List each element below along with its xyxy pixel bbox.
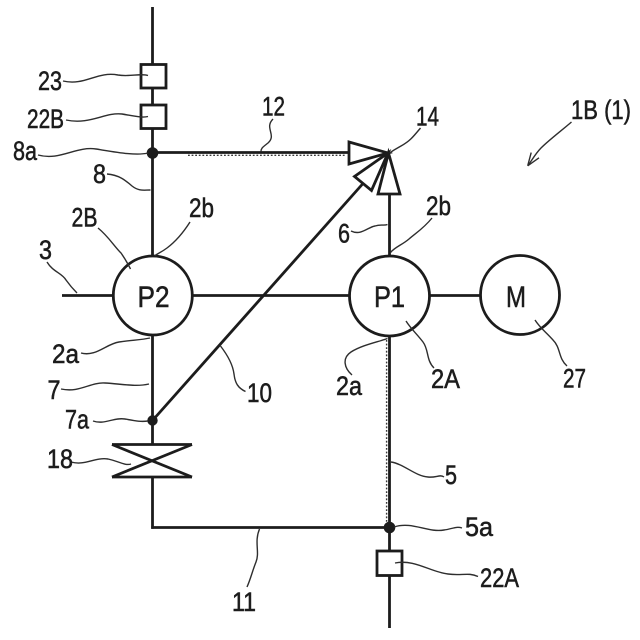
node 5a (junction dot) <box>385 523 394 532</box>
leader line for label 7a <box>93 419 148 422</box>
svg-text:7: 7 <box>48 375 61 405</box>
wire below valve 18 <box>151 477 154 529</box>
svg-text:22B: 22B <box>27 104 64 134</box>
wire 5: pump P1 down to node 5a <box>388 336 391 528</box>
leader line for label 12 <box>261 119 273 152</box>
leader line for label 7 <box>61 383 149 390</box>
pump P1 (circle) <box>350 256 430 336</box>
leader line for label 2a (right) <box>345 339 387 376</box>
svg-text:18: 18 <box>47 444 73 474</box>
leader line for label 8a <box>38 149 148 157</box>
wire 12 (pilot line to point 14, solid part) <box>153 151 349 154</box>
arrowhead of wire 12 at point 14 <box>349 142 388 164</box>
leader line for label 27 <box>535 320 567 366</box>
svg-text:5a: 5a <box>465 512 494 542</box>
svg-text:2a: 2a <box>52 339 80 369</box>
leader line for label 5a <box>394 525 462 530</box>
pump P2 (circle) <box>113 256 192 335</box>
svg-text:11: 11 <box>232 587 256 617</box>
wire 5 dotted companion line <box>386 340 388 525</box>
wire below valve 22A to tank <box>388 576 391 629</box>
valve 22A (square symbol) <box>377 551 402 576</box>
leader line for label 10 <box>221 346 246 392</box>
leader line for label 22A <box>395 562 478 576</box>
svg-text:12: 12 <box>262 92 285 122</box>
leader line for label 3 <box>47 262 77 293</box>
valve 23 (square symbol) <box>141 65 166 89</box>
leader line for label 22B <box>66 114 148 121</box>
leader line for label 2b (right) <box>391 218 433 253</box>
arrowhead of wire 6 at point 14 <box>378 153 400 194</box>
svg-text:P2: P2 <box>138 281 170 314</box>
leader line for label 23 <box>63 74 148 82</box>
wire from node 5a to valve 22A <box>388 528 391 552</box>
wire 12 dotted companion line <box>188 154 346 156</box>
svg-text:10: 10 <box>247 378 272 408</box>
svg-text:27: 27 <box>563 364 586 394</box>
wire: top supply line into valve 23 <box>151 7 154 65</box>
svg-text:P1: P1 <box>374 281 405 314</box>
wire 10 (diagonal line from node 7a to point 14) <box>153 184 364 421</box>
leader line for label 5 <box>391 462 444 477</box>
svg-text:5: 5 <box>445 460 457 490</box>
arrow leader for label 1B(1) <box>528 122 572 166</box>
svg-text:22A: 22A <box>480 563 519 593</box>
leader line for label 18 <box>71 459 131 465</box>
svg-text:14: 14 <box>416 102 439 132</box>
svg-text:3: 3 <box>39 235 52 265</box>
leader line for label 8 <box>107 174 151 190</box>
wire 3: suction line at left of pump P2 <box>62 294 114 297</box>
node 8a (junction dot) <box>148 149 157 158</box>
svg-text:7a: 7a <box>65 405 90 435</box>
node 7a (junction dot) <box>149 417 157 425</box>
wire 6: pump P1 up to point 14 <box>388 194 391 257</box>
wire 11 (bottom horizontal line) <box>151 526 389 529</box>
svg-text:2A: 2A <box>431 364 460 394</box>
motor M (circle) <box>481 256 560 335</box>
arrowhead of wire 10 at point 14 <box>355 153 389 191</box>
leader line for label 6 <box>351 225 388 233</box>
svg-text:6: 6 <box>338 219 350 249</box>
leader line for label 11 <box>247 529 260 587</box>
svg-text:8a: 8a <box>13 136 38 166</box>
leader line for label 2b (left) <box>155 222 191 256</box>
shaft line between pump P1 and motor M <box>430 294 481 297</box>
leader line for label 2B <box>98 228 131 269</box>
svg-text:2B: 2B <box>72 203 98 233</box>
leader line for label 14 <box>390 128 421 153</box>
svg-text:2b: 2b <box>189 193 214 223</box>
shaft line between pump P2 and pump P1 <box>192 294 350 297</box>
svg-text:23: 23 <box>38 66 62 96</box>
valve 22B (square symbol) <box>141 105 166 129</box>
valve 18 (bowtie symbol) <box>112 445 192 478</box>
svg-text:1B (1): 1B (1) <box>571 95 631 125</box>
svg-text:M: M <box>506 281 526 314</box>
svg-text:2b: 2b <box>426 191 451 221</box>
leader line for label 2A <box>406 321 434 368</box>
wire 8: valve 22B down to pump P2 <box>151 129 154 257</box>
wire 7: pump P2 down to valve 18 <box>151 335 154 444</box>
svg-text:2a: 2a <box>336 371 363 401</box>
leader line for label 2a (left) <box>81 338 150 354</box>
svg-text:8: 8 <box>93 159 106 189</box>
wire between valve 23 and valve 22B <box>151 88 154 105</box>
